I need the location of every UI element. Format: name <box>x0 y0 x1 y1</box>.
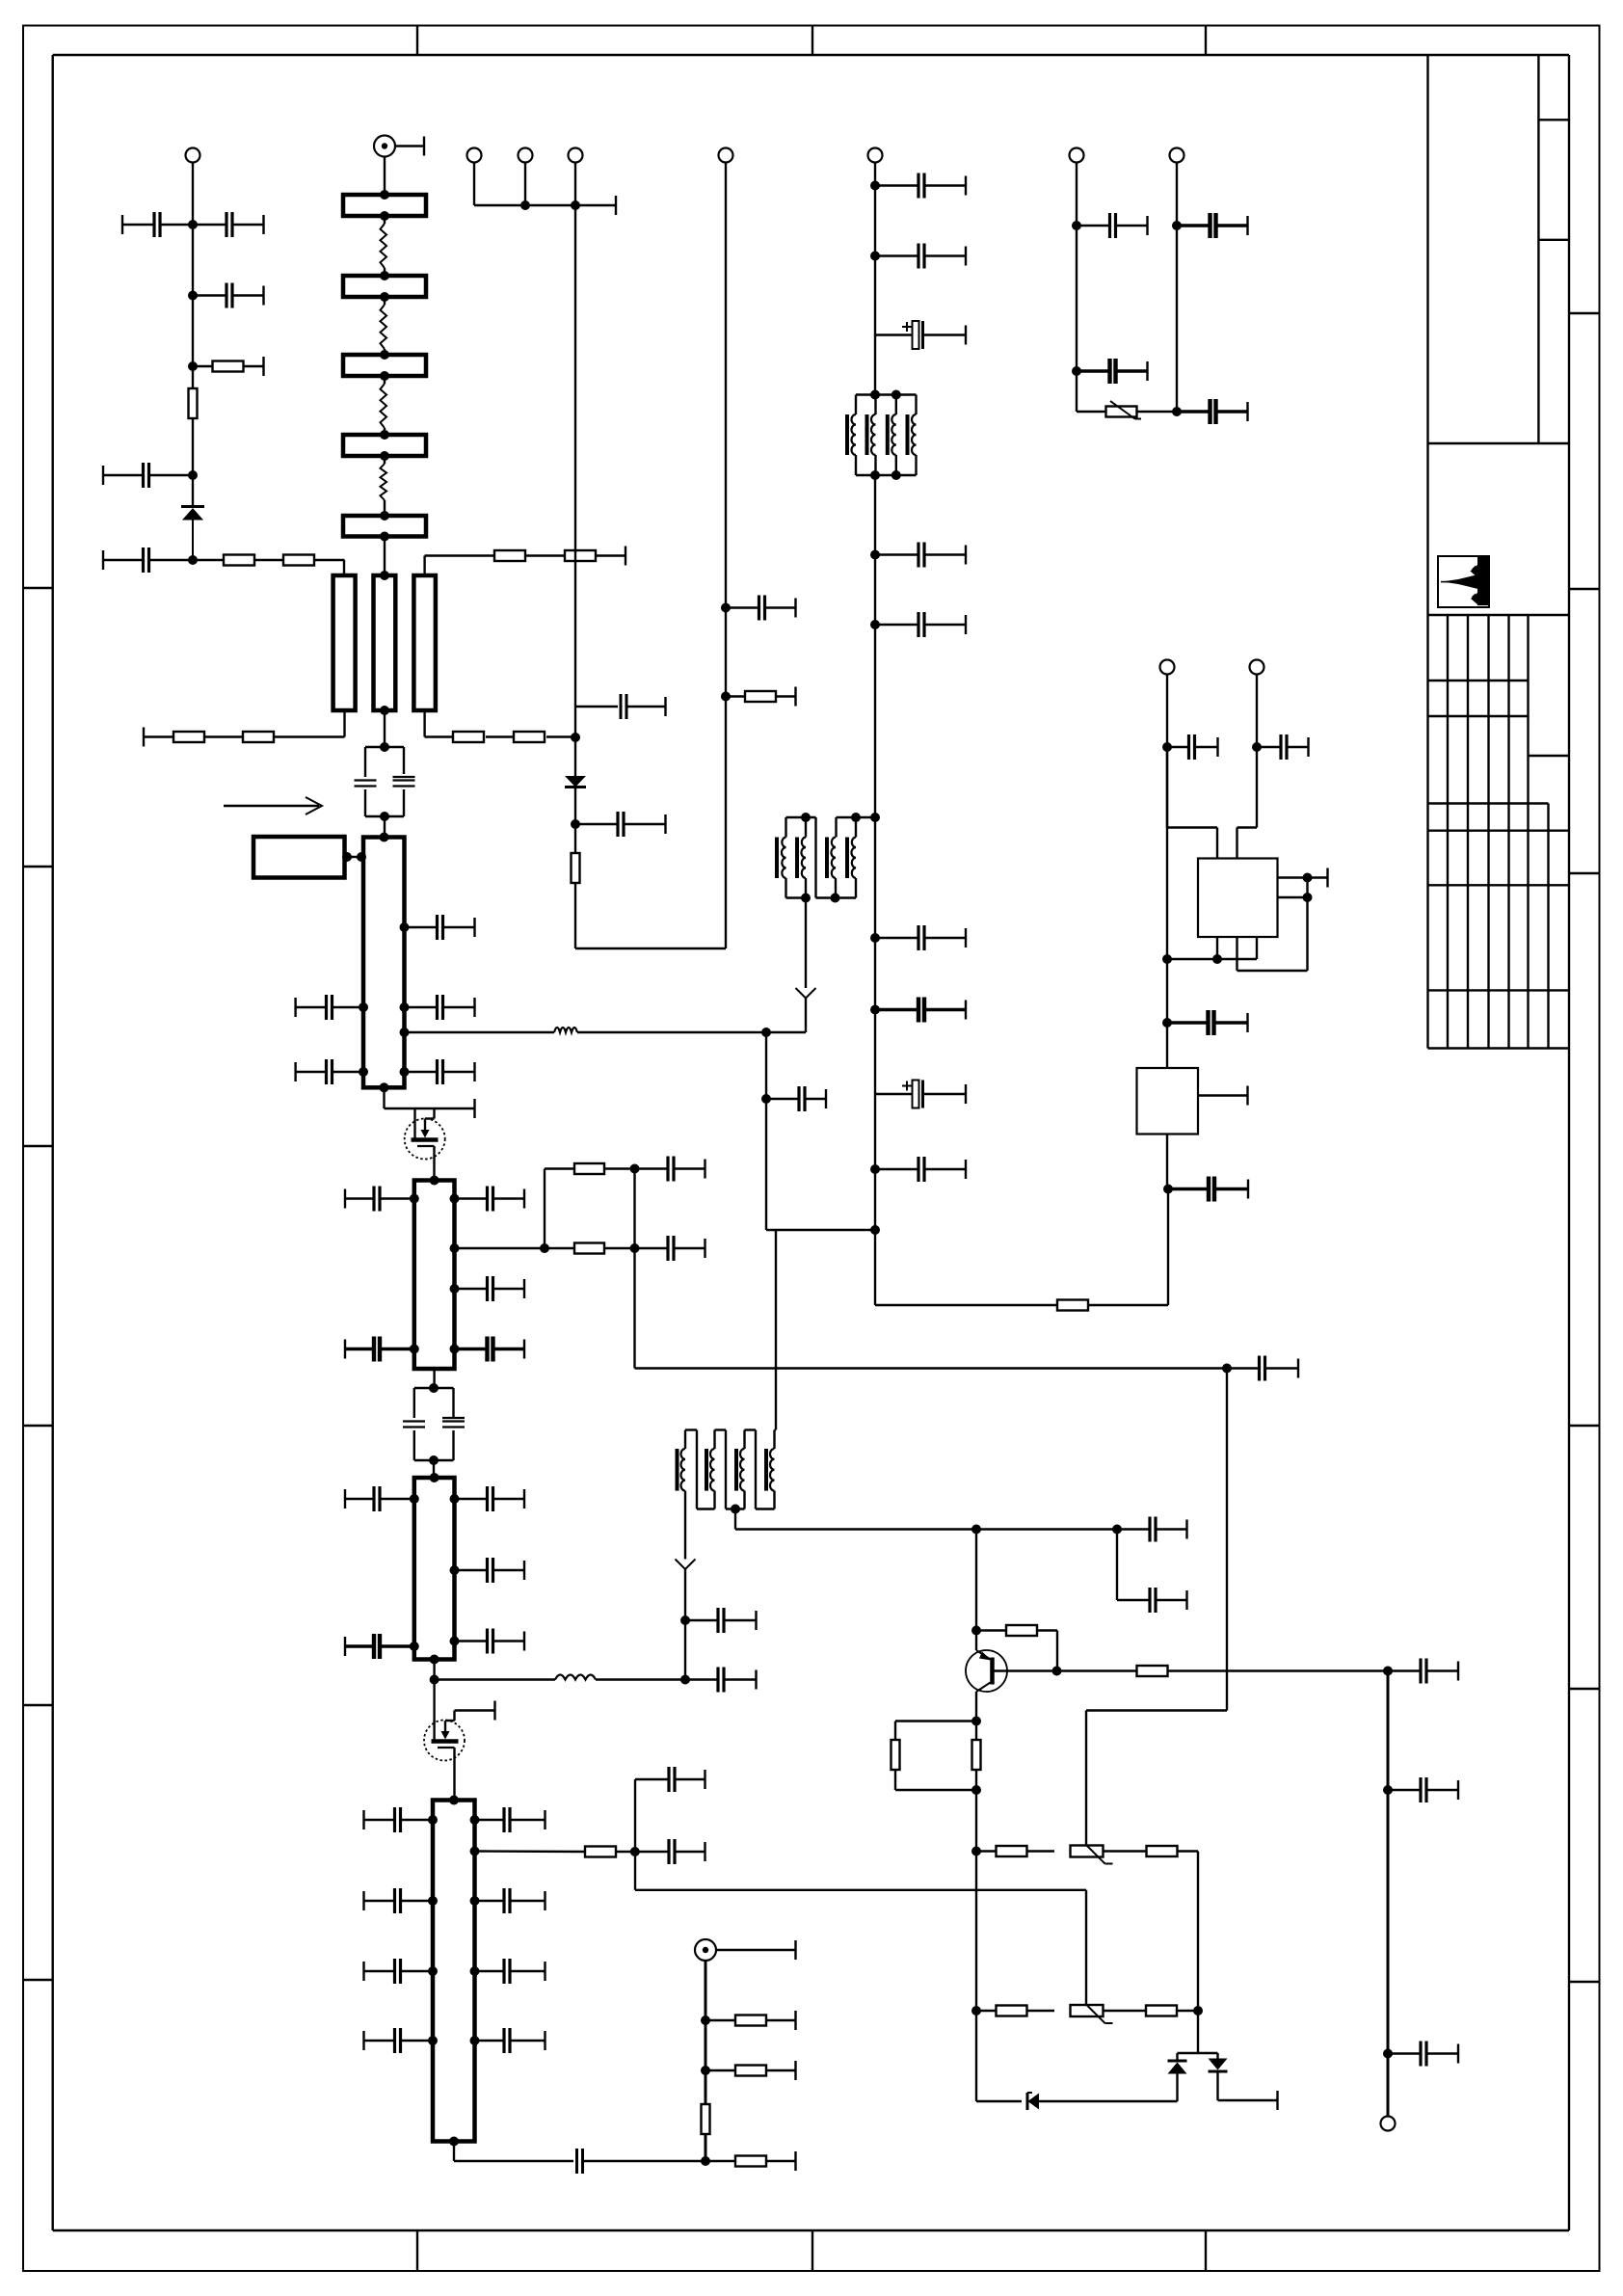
resistor R26 <box>1104 1846 1199 1856</box>
node M4 <box>870 620 880 629</box>
node F3r1 <box>450 1494 460 1504</box>
top margin zone tick <box>811 26 813 56</box>
resistor R27 <box>976 2006 1027 2016</box>
wire <box>976 2100 1022 2102</box>
inductor L5 <box>554 1028 577 1032</box>
left margin zone tick <box>23 1704 53 1706</box>
title block cell line <box>1538 239 1569 241</box>
title block row line <box>1428 442 1570 444</box>
capacitor C32 <box>1117 1517 1187 1542</box>
wire <box>975 1530 977 1651</box>
wire <box>384 157 386 196</box>
node H2 <box>1112 1525 1122 1535</box>
logo box <box>1438 556 1489 607</box>
node F4r <box>470 1966 480 1976</box>
wire win1 out <box>684 1509 686 1553</box>
capacitor C8 <box>726 596 796 621</box>
node rail2 <box>571 200 580 210</box>
electrolytic capacitor C48 <box>875 1081 966 1108</box>
wire <box>1176 163 1178 413</box>
node C753a <box>721 603 731 613</box>
wire loop <box>1237 878 1308 972</box>
node A1 <box>188 220 198 229</box>
capacitor C22 <box>345 1486 414 1511</box>
node A3 <box>188 361 198 371</box>
capacitor C41 <box>875 174 966 199</box>
wire <box>1218 2071 1278 2110</box>
capacitor C21 <box>1227 1356 1298 1381</box>
node F3r3 <box>450 1637 460 1646</box>
wire <box>575 883 726 948</box>
node G1a <box>701 2016 710 2025</box>
title block left edge <box>1426 55 1428 1049</box>
node F1r1 <box>400 922 410 932</box>
capacitor C44 <box>875 543 966 568</box>
capacitor C30 <box>685 1608 757 1633</box>
wire bus <box>705 1961 707 2104</box>
oscillator block G1 <box>253 837 345 878</box>
resistor R19 <box>705 2151 796 2171</box>
coil L4 <box>381 464 387 500</box>
arrow <box>676 1552 696 1680</box>
node K8 <box>1163 1185 1173 1194</box>
capacitor C17 <box>345 1337 414 1362</box>
wire <box>384 816 386 838</box>
coil L2 <box>381 305 387 349</box>
node N3 <box>1172 221 1182 230</box>
resistor R18 vertical <box>702 2104 710 2134</box>
wire <box>574 788 576 853</box>
IF filter block Z8 <box>414 1473 455 1665</box>
helical filter section Z2 <box>343 271 426 302</box>
capacitor C7 <box>575 812 666 837</box>
resistor R17 <box>705 2061 796 2080</box>
capacitor C14 <box>345 1187 414 1212</box>
capacitor C40 <box>1168 1177 1248 1202</box>
node F1l2 <box>359 1067 368 1077</box>
node F3r2 <box>450 1565 460 1575</box>
terminal X4 <box>569 148 583 163</box>
capacitor C45 <box>875 612 966 637</box>
node G1b <box>701 2066 710 2075</box>
pin wire <box>1198 1086 1248 1106</box>
trimmer R28 <box>1027 2005 1113 2024</box>
terminal X6 <box>1381 2117 1396 2131</box>
wire agc <box>405 1031 555 1033</box>
node H9 <box>1193 2006 1203 2016</box>
node F4l <box>428 1896 438 1906</box>
IF transformer T2 <box>678 1430 777 1514</box>
wire <box>384 710 386 747</box>
capacitor C3 <box>193 283 264 308</box>
node C753b <box>721 692 731 702</box>
capacitor C52 <box>1077 359 1148 384</box>
wire <box>1197 1852 1199 2054</box>
electrolytic capacitor C43 <box>875 321 966 349</box>
title grid column <box>1527 615 1529 1049</box>
wire <box>433 1369 436 1478</box>
wire G1 pin <box>342 852 366 862</box>
title block col line <box>1537 55 1539 443</box>
node M8 <box>870 1005 880 1015</box>
wire <box>705 2134 707 2161</box>
capacitor C23 <box>455 1486 525 1511</box>
node F4out <box>470 1847 480 1856</box>
node lad3 <box>630 1243 640 1253</box>
node J2 <box>1383 1785 1393 1795</box>
trimmer capacitor block CT1 <box>355 742 415 821</box>
node F1l1 <box>359 1002 368 1012</box>
node F3l1 <box>410 1494 419 1504</box>
node A2 <box>188 291 198 301</box>
antenna connector XW1 <box>374 136 424 157</box>
node lad1 <box>540 1243 549 1253</box>
title grid column <box>1447 615 1449 1049</box>
node A5 <box>188 555 198 565</box>
wire <box>1226 1369 1228 1711</box>
wire <box>1116 1530 1118 1601</box>
node F3l2 <box>410 1642 419 1651</box>
right margin zone tick <box>1569 1981 1600 1983</box>
terminal X2 <box>467 148 482 163</box>
node M2 <box>870 252 880 261</box>
IF filter block Z7 <box>414 1176 455 1370</box>
resonator W1 <box>333 575 356 710</box>
capacitor C33 <box>1117 1588 1187 1613</box>
resistor R11 vertical <box>572 853 580 883</box>
wire agc2 <box>577 1031 806 1033</box>
inductor L6 <box>555 1675 596 1680</box>
wire <box>895 1771 976 1791</box>
resistor R24 <box>976 1846 1027 1856</box>
title grid line <box>1428 884 1570 886</box>
wire <box>634 1779 636 1890</box>
node out1 <box>630 1847 640 1856</box>
wire out row <box>475 1850 586 1853</box>
capacitor <box>364 1888 434 1913</box>
capacitor C36 <box>1388 2042 1458 2067</box>
left margin zone tick <box>23 1979 53 1981</box>
wire <box>455 1247 545 1249</box>
capacitor <box>475 2028 545 2053</box>
title grid bottom <box>1428 1047 1570 1049</box>
capacitor C1 <box>122 212 193 237</box>
left margin zone tick <box>23 1145 53 1147</box>
wire tap arrow <box>796 898 816 1033</box>
resistor R29 <box>1104 2006 1199 2016</box>
capacitor C39 <box>1167 1010 1248 1035</box>
node K3 <box>1303 873 1313 883</box>
pin wire <box>1216 937 1218 959</box>
capacitor C19 <box>635 1157 705 1182</box>
capacitor C12 <box>296 1059 363 1084</box>
node F4r <box>470 2036 480 2045</box>
node H6 <box>971 1785 981 1795</box>
node F1r2 <box>400 1002 410 1012</box>
title grid line <box>1529 755 1570 757</box>
capacitor C34 <box>1388 1659 1458 1684</box>
capacitor C31 <box>685 1668 757 1693</box>
capacitor <box>364 1959 434 1984</box>
resistor R3 <box>193 555 283 566</box>
node M11 <box>761 1094 771 1104</box>
terminal X5 <box>719 148 733 163</box>
node F1r3 <box>400 1067 410 1077</box>
capacitor C2 <box>193 212 264 237</box>
wire <box>1176 2074 1178 2102</box>
node J1 <box>1383 1667 1393 1676</box>
capacitor C4 <box>103 463 193 488</box>
capacitor C18 <box>455 1337 525 1362</box>
resistor R8 <box>525 547 625 566</box>
capacitor C50 <box>766 1086 826 1111</box>
logo image <box>1441 557 1488 606</box>
capacitor C46 <box>875 925 966 950</box>
IF filter block Z9 <box>433 1796 475 2147</box>
terminal X11 <box>1170 148 1184 163</box>
left margin zone tick <box>23 1425 53 1427</box>
title block cell line <box>1538 119 1569 120</box>
node F1agc <box>400 1028 410 1037</box>
node K2 <box>1252 742 1262 752</box>
diode rail <box>1178 2052 1218 2054</box>
right margin zone tick <box>1569 872 1600 874</box>
IF transformer T3 <box>777 813 875 903</box>
wire <box>1077 163 1106 413</box>
node K7 <box>1162 1018 1172 1028</box>
helical filter section Z4 <box>343 430 426 461</box>
divider IC D2 <box>1137 1068 1199 1135</box>
node F4l <box>428 1966 438 1976</box>
wire tap <box>734 1509 736 1530</box>
capacitor <box>475 1888 545 1913</box>
resistor R23 vertical <box>972 1740 981 1770</box>
title grid column <box>1547 804 1549 1049</box>
helical filter section Z3 <box>343 350 426 381</box>
capacitor C28 <box>573 2149 705 2174</box>
pin wire <box>1278 868 1328 888</box>
right margin zone tick <box>1569 588 1600 590</box>
terminal X7 <box>1160 660 1175 675</box>
wire <box>725 163 727 949</box>
wire <box>574 707 576 776</box>
node H1 <box>971 1525 981 1535</box>
capacitor C51 <box>1077 213 1148 238</box>
resistor R10 <box>486 732 575 742</box>
node F2lad <box>450 1243 460 1253</box>
trimmer capacitor block CT2 <box>403 1383 465 1465</box>
terminal X1 <box>186 148 200 163</box>
node K1 <box>1162 742 1172 752</box>
node G1c <box>701 2156 710 2166</box>
capacitor C25 <box>345 1634 414 1659</box>
title grid line <box>1428 680 1529 681</box>
bottom margin zone tick <box>1205 2230 1207 2271</box>
node agc <box>761 1028 771 1037</box>
node H3 <box>971 1626 981 1636</box>
capacitor C26 <box>455 1629 525 1654</box>
capacitor C42 <box>875 244 966 269</box>
terminal X3 <box>519 148 533 163</box>
node H4 <box>1052 1667 1062 1676</box>
node M10 <box>870 1225 880 1235</box>
coil L1 <box>381 224 387 268</box>
connector XW2 <box>695 1939 796 1961</box>
node F4r <box>470 1815 480 1825</box>
bottom margin zone tick <box>416 2230 418 2271</box>
title grid line <box>1428 802 1549 804</box>
resistor R13 <box>545 1163 635 1174</box>
node F4l <box>428 1815 438 1825</box>
node T2a <box>680 1615 690 1625</box>
node M1 <box>870 181 880 191</box>
gate bias stub <box>455 1701 495 1721</box>
node A4 <box>188 470 198 480</box>
capacitor <box>364 2028 434 2053</box>
terminal X10 <box>1070 148 1084 163</box>
node F2r2 <box>450 1284 460 1294</box>
node F3b <box>430 1675 439 1685</box>
node K6 <box>1162 954 1172 964</box>
capacitor C37 <box>1167 734 1218 760</box>
resistor R1 <box>193 357 264 376</box>
helical filter section Z5 <box>343 511 426 542</box>
trimmer R25 <box>1027 1845 1113 1864</box>
wire <box>192 163 194 389</box>
IF filter block Z6 <box>363 833 405 1093</box>
resistor R5 <box>144 728 243 747</box>
node M6 <box>870 933 880 943</box>
resistor R16 <box>705 2011 796 2030</box>
node H8 <box>971 2006 981 2016</box>
capacitor C35 <box>1388 1777 1458 1802</box>
resistor R21 <box>1137 1666 1389 1676</box>
oscillator IC D1 <box>1198 859 1278 938</box>
node F2r3 <box>450 1345 460 1354</box>
wire <box>1166 747 1168 1068</box>
terminal X9 <box>868 148 883 163</box>
capacitor C6 <box>575 694 666 719</box>
resistor R7 <box>425 550 525 561</box>
resistor R22 vertical <box>891 1740 900 1770</box>
wire W1 bottom lead <box>343 710 345 737</box>
top margin zone tick <box>416 26 418 56</box>
resistor R15 <box>585 1847 635 1857</box>
wire wiper1 <box>1086 1711 1227 1846</box>
wire W1 top lead <box>343 560 345 575</box>
diode VD3 <box>1027 2093 1178 2110</box>
resistor R30 <box>875 1300 1088 1311</box>
title grid line <box>1428 715 1529 717</box>
wire <box>874 475 876 1305</box>
wire W3 bottom lead <box>423 710 425 737</box>
right margin zone tick <box>1569 1425 1600 1427</box>
title grid column <box>1487 615 1489 1049</box>
diode VD4 <box>1168 2053 1187 2074</box>
node M9 <box>870 1164 880 1174</box>
title grid line <box>1428 830 1570 832</box>
transistor VT2 MOSFET <box>424 1711 465 1801</box>
node H7 <box>971 1847 981 1856</box>
left margin zone tick <box>23 866 53 868</box>
right margin zone tick <box>1569 312 1600 314</box>
capacitor C53 <box>1177 213 1248 238</box>
node N1 <box>1072 221 1081 230</box>
resonator W3 <box>413 575 436 710</box>
wire agc line <box>635 1890 1086 2005</box>
title block row line <box>1428 614 1570 616</box>
wire <box>596 1678 685 1680</box>
capacitor C9 <box>405 915 475 940</box>
bottom margin zone tick <box>811 2230 813 2271</box>
wire <box>735 1528 1117 1530</box>
node J3 <box>1383 2049 1393 2059</box>
coil L3 <box>381 384 387 428</box>
node F2r1 <box>450 1194 460 1204</box>
wire <box>765 1032 767 1230</box>
node M3 <box>870 550 880 560</box>
resonator W2 <box>374 571 396 715</box>
capacitor C10 <box>296 995 363 1020</box>
node B2 <box>571 819 580 829</box>
resistor R2 vertical <box>189 388 198 418</box>
capacitor <box>475 1807 545 1832</box>
diode VD1 <box>181 507 204 561</box>
node M5 <box>870 813 880 822</box>
diode VD2 <box>565 776 586 788</box>
capacitor C13 <box>405 1059 475 1084</box>
wire <box>192 418 194 505</box>
wire <box>895 1722 976 1740</box>
node F4r <box>470 1896 480 1906</box>
helical filter section Z1 <box>343 190 426 221</box>
wire <box>544 1169 545 1249</box>
wire <box>766 1229 875 1231</box>
top margin zone tick <box>1205 26 1207 56</box>
capacitor C16 <box>455 1276 525 1301</box>
wire rail <box>474 163 616 216</box>
capacitor C20 <box>635 1236 705 1261</box>
terminal X8 <box>1250 660 1264 675</box>
resistor R6 <box>243 732 345 742</box>
wire <box>975 1722 977 2102</box>
capacitor <box>475 1959 545 1984</box>
wire <box>385 1087 475 1118</box>
node rail1 <box>520 200 530 210</box>
wire <box>433 1660 435 1742</box>
wire <box>384 216 386 516</box>
capacitor C11 <box>405 995 475 1020</box>
resistor R4 <box>283 555 345 566</box>
capacitor C47 <box>875 998 966 1023</box>
node N4 <box>1172 407 1182 416</box>
capacitor <box>364 1807 434 1832</box>
capacitor C24 <box>455 1558 525 1583</box>
wire <box>1167 675 1217 859</box>
base row wire <box>1057 1669 1137 1671</box>
resistor R14 <box>545 1243 635 1254</box>
wire <box>1167 937 1257 959</box>
varistor RU1 <box>1106 401 1178 419</box>
wire <box>454 2142 573 2162</box>
node lad2 <box>630 1164 640 1174</box>
node K4 <box>1303 893 1313 902</box>
wire <box>1088 1135 1169 1306</box>
wire <box>775 1230 777 1430</box>
pin wire <box>1278 896 1308 898</box>
capacitor C38 <box>1257 734 1309 760</box>
node F2l1 <box>410 1194 419 1204</box>
